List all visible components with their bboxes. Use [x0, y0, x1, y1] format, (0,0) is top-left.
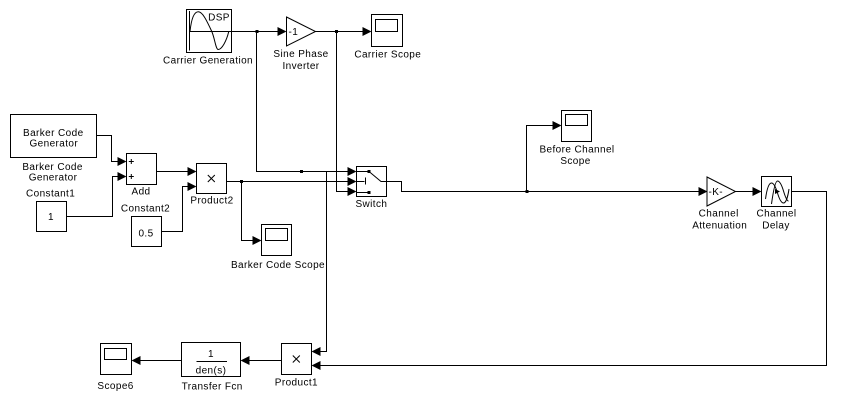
svg-text:-1: -1: [289, 27, 299, 38]
scope block Barker Code Scope: [262, 225, 292, 256]
svg-text:Constant1: Constant1: [26, 188, 75, 199]
gain block Sine Phase Inverter: [287, 17, 316, 46]
sum block Add: [127, 154, 157, 185]
junction node at carrier output: [256, 30, 259, 33]
junction node on channel wire: [526, 190, 529, 193]
svg-text:Product1: Product1: [275, 377, 318, 388]
svg-text:den(s): den(s): [196, 366, 227, 377]
constant block Constant2: [132, 217, 162, 247]
svg-text:1: 1: [208, 349, 214, 360]
svg-text:Carrier Scope: Carrier Scope: [354, 50, 421, 61]
wire Switch output to Channel Attenuation: [387, 182, 708, 197]
product block Product2: [197, 164, 227, 194]
label Channel Delay: [756, 209, 796, 232]
wire Add output to Product2 input 1: [157, 167, 197, 176]
svg-text:Barker Code Scope: Barker Code Scope: [231, 260, 325, 271]
svg-text:Transfer Fcn: Transfer Fcn: [182, 382, 243, 393]
wire Barker Code Generator to Add input 1: [97, 136, 127, 167]
switch block Switch: [357, 167, 387, 197]
svg-text:Generator: Generator: [29, 173, 78, 184]
delay block Channel Delay: [762, 177, 792, 207]
svg-text:Attenuation: Attenuation: [692, 220, 747, 231]
scope block Before Channel Scope: [562, 111, 592, 142]
wire Constant2 to Product2 input 2: [162, 182, 197, 232]
constant block Constant1: [37, 202, 67, 232]
scope block Scope6: [101, 344, 132, 375]
wire Sine Phase Inverter output to Carrier Scope: [316, 27, 372, 36]
label Channel Attenuation: [692, 209, 747, 232]
wire inverter branch down to Switch input 3: [337, 32, 357, 197]
svg-text:Constant2: Constant2: [121, 204, 170, 215]
wire Carrier Generation output to Sine Phase Inverter: [232, 27, 287, 36]
svg-text:0.5: 0.5: [138, 228, 153, 239]
label Sine Phase Inverter: [273, 49, 328, 72]
svg-text:Switch: Switch: [355, 199, 387, 210]
wire branch up to Before Channel Scope: [527, 121, 562, 192]
svg-text:Delay: Delay: [762, 220, 790, 231]
source block Carrier Generation U1 (DSP sine wave): [187, 10, 232, 53]
wire branch down to Barker Code Scope: [242, 182, 262, 246]
wire carrier branch down to Switch input 1: [257, 32, 357, 177]
svg-text:DSP: DSP: [208, 13, 230, 24]
wire Channel Delay output return loop to Product1 input 2: [312, 192, 827, 371]
junction node on carrier-to-switch wire: [300, 170, 303, 173]
svg-text:Inverter: Inverter: [282, 61, 319, 72]
junction node on Product2 output: [240, 180, 243, 183]
wire Transfer Fcn output to Scope6: [132, 356, 182, 365]
svg-text:Barker Code: Barker Code: [22, 162, 83, 173]
svg-text:Barker Code: Barker Code: [23, 128, 84, 139]
wire Product1 output to Transfer Fcn: [241, 356, 282, 365]
junction node at inverter output: [335, 30, 338, 33]
svg-text:Sine Phase: Sine Phase: [273, 49, 328, 60]
transfer function block Transfer Fcn: [182, 343, 241, 377]
wire Product2 output to Switch input 2: [227, 177, 357, 186]
svg-text:Channel: Channel: [756, 209, 796, 220]
wire Constant1 to Add input 2: [67, 172, 127, 217]
label Before Channel Scope: [539, 145, 614, 168]
svg-text:Generator: Generator: [29, 138, 78, 149]
gain block Channel Attenuation: [707, 177, 736, 206]
label Barker Code Generator: [22, 162, 83, 184]
wire carrier branch down to Product1 input 1: [312, 172, 327, 357]
svg-text:Before Channel: Before Channel: [539, 145, 614, 156]
svg-text:Carrier Generation: Carrier Generation: [163, 55, 253, 66]
svg-text:Channel: Channel: [699, 209, 739, 220]
svg-text:Scope6: Scope6: [97, 381, 133, 392]
svg-text:Scope: Scope: [560, 156, 590, 167]
scope block Carrier Scope: [372, 15, 403, 47]
product block Product1 (mirrored): [282, 344, 312, 375]
svg-text:-K-: -K-: [709, 187, 724, 198]
svg-text:Add: Add: [132, 187, 151, 198]
source block Barker Code Generator: [11, 115, 97, 158]
svg-text:Product2: Product2: [190, 196, 233, 207]
svg-text:1: 1: [48, 212, 54, 223]
wire Channel Attenuation to Channel Delay: [736, 187, 762, 196]
